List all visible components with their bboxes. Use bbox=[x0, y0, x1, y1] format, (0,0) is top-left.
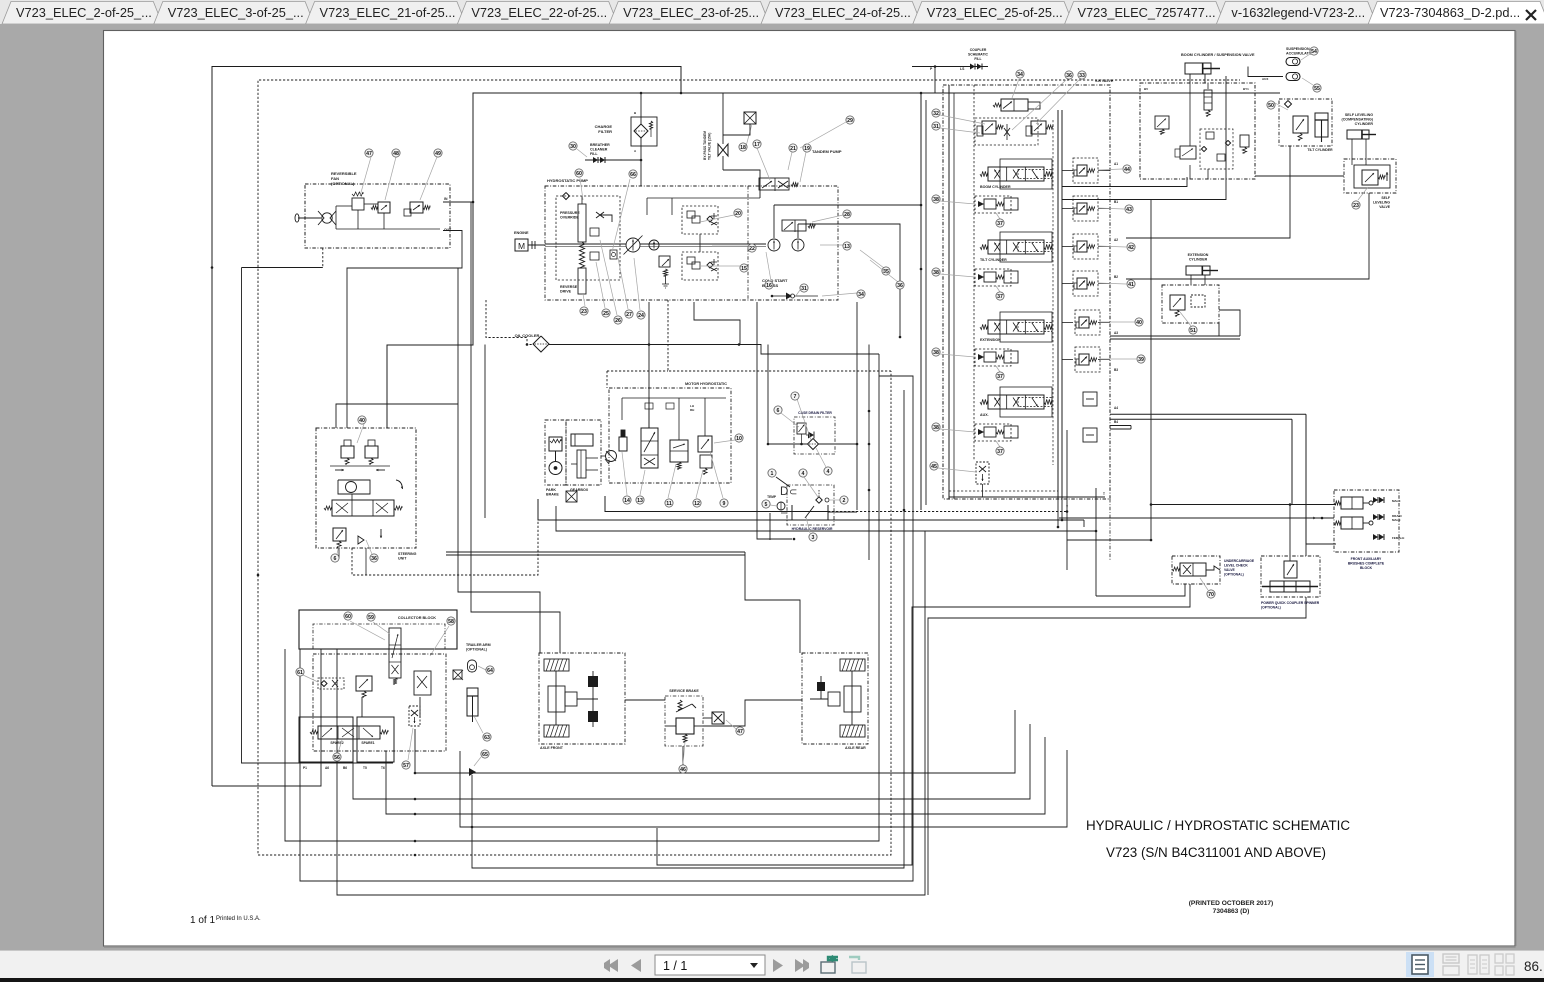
balloon 59 bbox=[373, 622, 390, 634]
svg-text:MALE: MALE bbox=[1392, 499, 1401, 503]
svg-text:TANDEM PUMP: TANDEM PUMP bbox=[812, 149, 842, 154]
previous view icon bbox=[821, 962, 835, 973]
wire suspension A1 bbox=[1062, 177, 1187, 187]
svg-text:B4: B4 bbox=[1114, 420, 1118, 424]
balloon 50 bbox=[1275, 103, 1288, 110]
svg-text:9: 9 bbox=[723, 501, 726, 507]
balloon 11 bbox=[668, 464, 676, 498]
wire undercarriage bus bbox=[1067, 539, 1151, 541]
bottom black strip bbox=[0, 978, 1544, 982]
spool valve section EXTENSION bbox=[988, 320, 1044, 334]
wire pump LS top bbox=[723, 170, 760, 198]
svg-text:61: 61 bbox=[297, 670, 303, 676]
svg-text:4: 4 bbox=[802, 471, 805, 477]
svg-text:A1: A1 bbox=[1114, 162, 1118, 166]
svg-text:26: 26 bbox=[615, 318, 621, 324]
svg-text:43: 43 bbox=[1126, 207, 1132, 213]
svg-text:V723_ELEC_22-of-25...: V723_ELEC_22-of-25... bbox=[471, 5, 607, 20]
svg-text:PRESSURE: PRESSURE bbox=[560, 211, 580, 215]
svg-text:PARK: PARK bbox=[546, 488, 556, 492]
page number box bbox=[655, 955, 765, 975]
main valve bank box bbox=[943, 85, 1110, 499]
svg-text:OIL COOLER: OIL COOLER bbox=[515, 333, 540, 338]
steering gerotor bbox=[346, 482, 357, 493]
balloon 60 bbox=[580, 178, 583, 200]
svg-text:A3: A3 bbox=[1114, 331, 1118, 335]
balloon 30 bbox=[577, 149, 587, 157]
svg-text:MALE: MALE bbox=[1392, 518, 1401, 522]
wire bank right edge extension bbox=[1109, 499, 1111, 560]
svg-text:V723_ELEC_2-of-25_...: V723_ELEC_2-of-25_... bbox=[16, 5, 152, 20]
svg-text:BY1: BY1 bbox=[1243, 87, 1249, 91]
wire tilt link bbox=[1126, 146, 1290, 238]
power coupler cylinder bbox=[1270, 581, 1310, 592]
svg-text:V723 (S/N B4C311001 AND ABOVE): V723 (S/N B4C311001 AND ABOVE) bbox=[1106, 845, 1326, 860]
balloon 26 bbox=[600, 240, 617, 315]
trailer vent square bbox=[453, 670, 462, 679]
cavity plug 2 bbox=[1083, 428, 1097, 442]
svg-text:55: 55 bbox=[1314, 86, 1320, 92]
balloon 58 bbox=[430, 626, 449, 656]
svg-text:6: 6 bbox=[334, 556, 337, 562]
drain square bbox=[566, 491, 577, 502]
balloon 70 bbox=[1200, 578, 1208, 590]
bank center rails bbox=[1057, 110, 1059, 499]
balloon 36b bbox=[1012, 80, 1066, 130]
svg-text:HYDRAULIC RESERVOIR: HYDRAULIC RESERVOIR bbox=[792, 527, 833, 531]
extension cylinder bbox=[1186, 266, 1210, 275]
svg-text:20: 20 bbox=[735, 211, 741, 217]
balloon 28 bbox=[812, 215, 843, 222]
wire service brake right bbox=[703, 700, 802, 726]
trailer cylinder vertical bbox=[467, 688, 478, 716]
bypass solenoid valve bbox=[759, 178, 789, 190]
svg-text:2: 2 bbox=[843, 498, 846, 504]
service brake box bbox=[665, 696, 703, 746]
svg-text:33: 33 bbox=[1079, 73, 1085, 79]
wire brake drop bbox=[682, 746, 684, 773]
svg-text:B6: B6 bbox=[343, 766, 347, 770]
balloon 20 bbox=[700, 215, 734, 222]
wire bank fill drop bbox=[934, 67, 936, 94]
tank wires bbox=[828, 511, 857, 513]
load check BOOM CYLINDER bbox=[975, 196, 1011, 213]
self leveling valve bbox=[1362, 170, 1378, 185]
steering unit box bbox=[316, 428, 416, 548]
svg-text:4: 4 bbox=[827, 469, 830, 475]
svg-text:13: 13 bbox=[637, 498, 643, 504]
reducing valve right 33 bbox=[1031, 121, 1046, 134]
svg-text:66: 66 bbox=[630, 172, 636, 178]
svg-text:36: 36 bbox=[897, 283, 903, 289]
wire bottom 775 bbox=[415, 710, 1015, 773]
spool valve section BOOM CYLINDER bbox=[988, 167, 1044, 181]
bank flow control 45 bbox=[976, 462, 989, 484]
balloon 31b bbox=[940, 128, 980, 133]
svg-text:MOTOR HYDROSTATIC: MOTOR HYDROSTATIC bbox=[685, 382, 727, 386]
svg-text:3: 3 bbox=[812, 535, 815, 541]
balloon 10 bbox=[714, 440, 735, 443]
svg-text:HYDRAULIC / HYDROSTATIC SCHEMA: HYDRAULIC / HYDROSTATIC SCHEMATIC bbox=[1086, 818, 1350, 833]
balloon 31 bbox=[795, 290, 800, 297]
wire selflevel left link bbox=[1255, 175, 1344, 177]
svg-text:M: M bbox=[518, 241, 525, 251]
svg-text:38: 38 bbox=[933, 425, 939, 431]
axle rear input bbox=[817, 682, 825, 691]
svg-text:FILL: FILL bbox=[590, 152, 598, 156]
balloon 54 bbox=[1301, 54, 1310, 60]
svg-text:DRIVE: DRIVE bbox=[560, 290, 572, 294]
balloon 4c bbox=[816, 448, 826, 467]
svg-text:40: 40 bbox=[1136, 320, 1142, 326]
balloon 36 bbox=[870, 260, 898, 282]
front aux valve 2 bbox=[1341, 517, 1363, 529]
junction dots bbox=[640, 92, 643, 95]
svg-text:38: 38 bbox=[933, 270, 939, 276]
svg-text:58: 58 bbox=[448, 619, 454, 625]
balloon 48 bbox=[385, 157, 396, 200]
svg-text:LEVEL CHECK: LEVEL CHECK bbox=[1224, 564, 1248, 568]
svg-text:CYLINDER: CYLINDER bbox=[1189, 258, 1208, 262]
svg-text:1: 1 bbox=[771, 471, 774, 477]
svg-text:FILL: FILL bbox=[974, 57, 981, 61]
motor box bbox=[609, 388, 731, 483]
svg-text:(COMPENSATING): (COMPENSATING) bbox=[1342, 118, 1374, 122]
svg-text:UNDERCARRIAGE: UNDERCARRIAGE bbox=[1224, 559, 1255, 563]
balloon 65 bbox=[474, 757, 481, 766]
svg-text:46: 46 bbox=[680, 767, 686, 773]
inactive tabs bbox=[2, 2, 162, 25]
svg-text:23: 23 bbox=[581, 309, 587, 315]
wire bus 531 bbox=[556, 506, 1096, 531]
balloon 13 bbox=[640, 470, 645, 495]
svg-text:OUT: OUT bbox=[444, 228, 452, 232]
charge relief valve bbox=[659, 256, 670, 267]
svg-text:31: 31 bbox=[933, 124, 939, 130]
svg-text:12: 12 bbox=[694, 501, 700, 507]
self leveling valve box bbox=[1344, 159, 1396, 193]
svg-text:⊂: ⊂ bbox=[789, 487, 797, 498]
svg-text:T5: T5 bbox=[363, 766, 367, 770]
wire steering bottom dashed bbox=[352, 518, 538, 575]
svg-text:COLLECTOR BLOCK: COLLECTOR BLOCK bbox=[398, 616, 436, 620]
tilt lock relief bbox=[1293, 116, 1308, 133]
wire bank out A9 double bbox=[1110, 413, 1306, 415]
balloon 17 bbox=[757, 148, 770, 180]
svg-text:V723_ELEC_23-of-25...: V723_ELEC_23-of-25... bbox=[623, 5, 759, 20]
svg-text:A6: A6 bbox=[325, 766, 329, 770]
wire dashed staircase cooler bbox=[668, 300, 891, 371]
strip under tabs bbox=[0, 24, 1544, 31]
svg-text:IN: IN bbox=[444, 197, 448, 201]
balloon 35 bbox=[860, 250, 884, 268]
svg-text:23: 23 bbox=[1353, 203, 1359, 209]
svg-text:BY-PASS TANDEM: BY-PASS TANDEM bbox=[703, 131, 707, 160]
balloon 37 AUX. bbox=[996, 441, 1000, 447]
svg-text:34: 34 bbox=[858, 292, 864, 298]
steering bottom wires bbox=[338, 548, 340, 558]
svg-text:39: 39 bbox=[1138, 357, 1144, 363]
svg-text:54: 54 bbox=[1311, 49, 1317, 55]
svg-text:37: 37 bbox=[997, 221, 1003, 227]
svg-text:V723_ELEC_24-of-25...: V723_ELEC_24-of-25... bbox=[775, 5, 911, 20]
svg-text:15: 15 bbox=[741, 266, 747, 272]
axle front tires bbox=[544, 659, 569, 671]
hydraulic reservoir box bbox=[787, 485, 834, 525]
reservoir suction diagonal bbox=[805, 506, 814, 518]
reducing valve left 35 bbox=[982, 121, 996, 134]
balloon 63 bbox=[474, 716, 483, 733]
svg-text:T6: T6 bbox=[381, 766, 385, 770]
svg-text:V723_ELEC_3-of-25_...: V723_ELEC_3-of-25_... bbox=[168, 5, 304, 20]
balloon 38 AUX. bbox=[940, 429, 975, 432]
wire collector drops bbox=[361, 697, 363, 717]
bank left rails bbox=[948, 85, 950, 499]
svg-text:70: 70 bbox=[1208, 592, 1214, 598]
svg-text:TILT CYLINDER: TILT CYLINDER bbox=[980, 258, 1007, 262]
svg-text:BLOCK: BLOCK bbox=[1360, 566, 1373, 570]
svg-text:EXTENSION: EXTENSION bbox=[1188, 253, 1209, 257]
svg-text:51: 51 bbox=[1190, 328, 1196, 334]
svg-text:v-1632legend-V723-2...: v-1632legend-V723-2... bbox=[1231, 5, 1365, 20]
port relief 43 bbox=[1073, 196, 1098, 221]
wire selflevel drop bbox=[1126, 193, 1369, 279]
svg-text:(OPTIONAL): (OPTIONAL) bbox=[466, 648, 488, 652]
collector solenoid valve vertical bbox=[389, 628, 401, 678]
svg-text:41: 41 bbox=[1128, 282, 1134, 288]
balloon 23s bbox=[1358, 187, 1368, 200]
vent square bbox=[744, 112, 756, 124]
svg-text:7: 7 bbox=[794, 394, 797, 400]
svg-text:BV: BV bbox=[1144, 87, 1148, 91]
wire bottom 814 bbox=[386, 737, 1045, 814]
svg-text:A2: A2 bbox=[1114, 238, 1118, 242]
hydrostatic pump box bbox=[545, 186, 838, 300]
balloon 13 right bbox=[820, 244, 843, 246]
check valve bottom 65 bbox=[469, 768, 476, 776]
svg-text:48: 48 bbox=[393, 151, 399, 157]
wire bottom 868 bbox=[472, 390, 904, 868]
tandem pump 2 bbox=[792, 239, 804, 251]
charge pump bbox=[649, 240, 659, 250]
svg-text:AUX: AUX bbox=[1262, 77, 1268, 81]
svg-text:65: 65 bbox=[482, 752, 488, 758]
coupler female bbox=[1377, 534, 1379, 540]
svg-text:EXTENSION: EXTENSION bbox=[980, 338, 1001, 342]
brake master cylinder bbox=[676, 718, 694, 734]
tilt lock check bbox=[1285, 101, 1292, 108]
svg-text:36: 36 bbox=[371, 556, 377, 562]
svg-text:(OPTIONAL): (OPTIONAL) bbox=[1224, 573, 1244, 577]
bottom toolbar bbox=[0, 951, 1544, 979]
balloon 5 bbox=[770, 505, 777, 506]
svg-text:BRUSHES COMPLETE: BRUSHES COMPLETE bbox=[1348, 562, 1385, 566]
motor shuttle valve bbox=[641, 428, 658, 468]
tilt lock cylinder bbox=[1315, 113, 1328, 137]
axle front ujoints bbox=[588, 676, 598, 687]
svg-text:18: 18 bbox=[740, 145, 746, 151]
port relief 42 bbox=[1073, 234, 1098, 259]
balloon 24 bbox=[634, 258, 640, 310]
balloon 21 bbox=[788, 152, 792, 170]
svg-text:CASE DRAIN FILTER: CASE DRAIN FILTER bbox=[798, 411, 832, 415]
prev page button bbox=[631, 959, 641, 972]
svg-text:RH: RH bbox=[690, 408, 694, 412]
axle rear diff bbox=[828, 692, 840, 706]
svg-text:AUX.: AUX. bbox=[980, 413, 989, 417]
power coupler relief bbox=[1284, 561, 1297, 578]
wire right vertical 928 bbox=[928, 597, 1306, 895]
wire right returns down bbox=[1150, 200, 1152, 541]
svg-text:47: 47 bbox=[737, 729, 743, 735]
svg-text:47: 47 bbox=[366, 151, 372, 157]
load check AUX. bbox=[975, 424, 1011, 441]
wire bus 510 bbox=[605, 496, 828, 512]
svg-text:38: 38 bbox=[933, 350, 939, 356]
pump shaft bbox=[545, 243, 626, 245]
temp gauge bbox=[777, 502, 785, 510]
self level wires bbox=[1351, 139, 1353, 165]
wire bus 552 bbox=[446, 551, 745, 553]
balloon 47 bbox=[360, 157, 371, 196]
axle rear shafts bbox=[851, 671, 853, 725]
load check TILT CYLINDER bbox=[975, 269, 1011, 286]
next view icon disabled bbox=[852, 962, 866, 973]
svg-text:D: D bbox=[780, 486, 788, 498]
reservoir tank bbox=[792, 505, 828, 520]
wire bus 518 bbox=[538, 499, 1084, 520]
svg-text:38: 38 bbox=[933, 197, 939, 203]
svg-text:63: 63 bbox=[484, 735, 490, 741]
svg-text:HYDROSTATIC PUMP: HYDROSTATIC PUMP bbox=[547, 178, 588, 183]
wire big dashed box bottom bbox=[258, 371, 891, 855]
motor speed sensor bbox=[619, 437, 627, 451]
svg-text:60: 60 bbox=[576, 171, 582, 177]
tandem pump 1 bbox=[768, 239, 780, 251]
next page button bbox=[773, 959, 783, 972]
balloon 60c bbox=[350, 621, 385, 640]
boom cylinder bbox=[1185, 63, 1211, 74]
svg-text:19: 19 bbox=[804, 146, 810, 152]
svg-text:ENGINE: ENGINE bbox=[514, 231, 529, 235]
balloon 40s bbox=[357, 424, 364, 443]
balloon 36s bbox=[366, 540, 372, 554]
steering shock valve right bbox=[365, 446, 378, 458]
suspension pilot element bbox=[1204, 90, 1212, 110]
first page button bbox=[608, 959, 618, 972]
suspension relief vertical bbox=[1240, 135, 1249, 147]
balloon 38 BOOM CYLINDER bbox=[940, 201, 975, 204]
tab bar background bbox=[0, 0, 1544, 24]
svg-text:UNIT: UNIT bbox=[398, 557, 407, 561]
suspension solenoid valve bbox=[1180, 146, 1196, 159]
wire accumulator feed bbox=[1248, 67, 1283, 77]
balloon 34 cold bbox=[822, 293, 857, 296]
svg-text:(OPTIONAL): (OPTIONAL) bbox=[1261, 606, 1281, 610]
balloon 57 bbox=[408, 728, 413, 760]
svg-text:CLEANER: CLEANER bbox=[590, 148, 608, 152]
undercarriage solenoid valve bbox=[1180, 563, 1206, 576]
svg-text:34: 34 bbox=[1017, 72, 1023, 78]
svg-text:V723_ELEC_25-of-25...: V723_ELEC_25-of-25... bbox=[927, 5, 1063, 20]
wire fan out lower bbox=[242, 267, 323, 269]
case drain feed lines bbox=[757, 302, 792, 539]
tab close button bbox=[1526, 10, 1536, 20]
svg-text:Printed In U.S.A.: Printed In U.S.A. bbox=[216, 916, 261, 922]
wire bank out A8 double bbox=[1110, 335, 1240, 337]
servo swashplate assembly bbox=[578, 204, 586, 242]
svg-text:50: 50 bbox=[1268, 103, 1274, 109]
balloon 45 bbox=[938, 468, 976, 472]
balloon 61 bbox=[303, 675, 318, 682]
svg-text:32: 32 bbox=[933, 111, 939, 117]
svg-text:44: 44 bbox=[1124, 167, 1130, 173]
svg-text:42: 42 bbox=[1128, 245, 1134, 251]
balloon 37 EXTENSION bbox=[996, 366, 1000, 372]
svg-text:59: 59 bbox=[368, 615, 374, 621]
svg-text:16: 16 bbox=[766, 283, 772, 289]
balloon 55 bbox=[1302, 78, 1313, 85]
svg-text:22: 22 bbox=[749, 246, 755, 252]
suspension bridge checks bbox=[1200, 129, 1233, 169]
brake pedal spring bbox=[678, 700, 682, 710]
wire corner 285 bbox=[285, 354, 879, 841]
balloon 51 bbox=[1180, 312, 1191, 326]
svg-text:24: 24 bbox=[638, 313, 644, 319]
bank bottom dashed bbox=[949, 490, 1058, 492]
wire front aux feed bbox=[1059, 517, 1334, 519]
svg-text:P1: P1 bbox=[303, 766, 307, 770]
svg-text:11: 11 bbox=[666, 501, 672, 507]
spare valve boxes bbox=[299, 717, 353, 762]
wire fan in bbox=[443, 201, 473, 203]
svg-text:T: T bbox=[1103, 492, 1105, 496]
trailer relief bbox=[356, 676, 372, 691]
wire frame horizontal y93 bbox=[387, 93, 1280, 428]
balloon 6 bbox=[781, 413, 799, 427]
svg-text:57: 57 bbox=[403, 763, 409, 769]
balloon 27 bbox=[618, 258, 628, 309]
balloon 22 bbox=[712, 245, 748, 247]
hydrostatic motor bbox=[606, 451, 617, 462]
balloon 46 bbox=[683, 742, 685, 764]
svg-text:CYLINDER: CYLINDER bbox=[1355, 122, 1374, 126]
svg-text:SELF: SELF bbox=[1381, 196, 1390, 200]
wire big dashed box top bbox=[258, 80, 1240, 575]
svg-text:TILT CYLINDER: TILT CYLINDER bbox=[1307, 148, 1333, 152]
case drain filter element bbox=[808, 439, 819, 450]
pilot solenoid valve 34 bbox=[1001, 99, 1028, 111]
svg-text:45: 45 bbox=[931, 464, 937, 470]
wire corner 925 bbox=[337, 531, 925, 895]
trailer solenoid poppet bbox=[414, 671, 431, 695]
wire corner 300 bbox=[300, 376, 913, 881]
svg-text:V723-7304863_D-2.pd...: V723-7304863_D-2.pd... bbox=[1380, 5, 1520, 20]
balloon 66 bbox=[612, 179, 630, 252]
balloon 33 bbox=[1036, 80, 1079, 124]
wire 745 drop bbox=[745, 552, 800, 653]
svg-text:(PRINTED OCTOBER 2017): (PRINTED OCTOBER 2017) bbox=[1189, 900, 1274, 907]
balloon 32 bbox=[940, 115, 985, 124]
spool valve section AUX. bbox=[988, 395, 1044, 409]
svg-text:SPARE1: SPARE1 bbox=[361, 741, 374, 745]
svg-text:BREATHER: BREATHER bbox=[590, 143, 610, 147]
wire bank B4 stubs bbox=[1110, 425, 1131, 427]
breather cleaner fill bbox=[597, 157, 599, 163]
balloon 25 bbox=[596, 262, 605, 308]
wire corner 212 bottom bbox=[212, 649, 321, 786]
gearbox internals bbox=[571, 434, 593, 446]
